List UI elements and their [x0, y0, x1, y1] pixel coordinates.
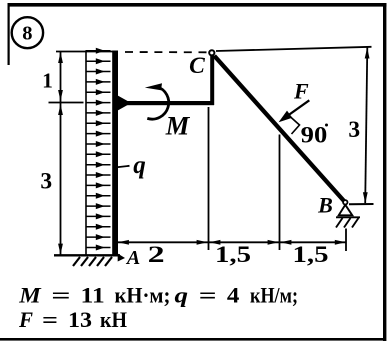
- svg-text:3: 3: [348, 117, 360, 143]
- svg-text:F: F: [18, 307, 33, 332]
- svg-text:q: q: [175, 283, 189, 308]
- svg-text:1,5: 1,5: [215, 242, 251, 268]
- svg-text:3: 3: [40, 168, 52, 194]
- svg-text:13: 13: [68, 307, 92, 332]
- svg-text:11: 11: [81, 283, 105, 308]
- svg-text:=: =: [51, 283, 70, 308]
- svg-text:кН·м;: кН·м;: [115, 283, 171, 308]
- svg-text:M: M: [18, 283, 42, 308]
- svg-text:2: 2: [148, 242, 165, 268]
- svg-text:A: A: [125, 247, 140, 269]
- svg-text:1: 1: [42, 68, 53, 92]
- svg-text:q: q: [133, 152, 146, 179]
- svg-text:90: 90: [301, 123, 328, 149]
- svg-text:=: =: [42, 307, 58, 332]
- svg-text:кН/м;: кН/м;: [250, 283, 298, 308]
- svg-text:M: M: [165, 110, 191, 140]
- svg-text:кН: кН: [100, 307, 127, 332]
- svg-text:C: C: [189, 53, 205, 79]
- svg-text:4: 4: [227, 283, 240, 308]
- svg-text:8: 8: [22, 23, 32, 45]
- svg-text:F: F: [293, 79, 309, 104]
- svg-text:=: =: [199, 283, 217, 308]
- svg-text:B: B: [317, 193, 333, 218]
- svg-text:1,5: 1,5: [293, 242, 329, 268]
